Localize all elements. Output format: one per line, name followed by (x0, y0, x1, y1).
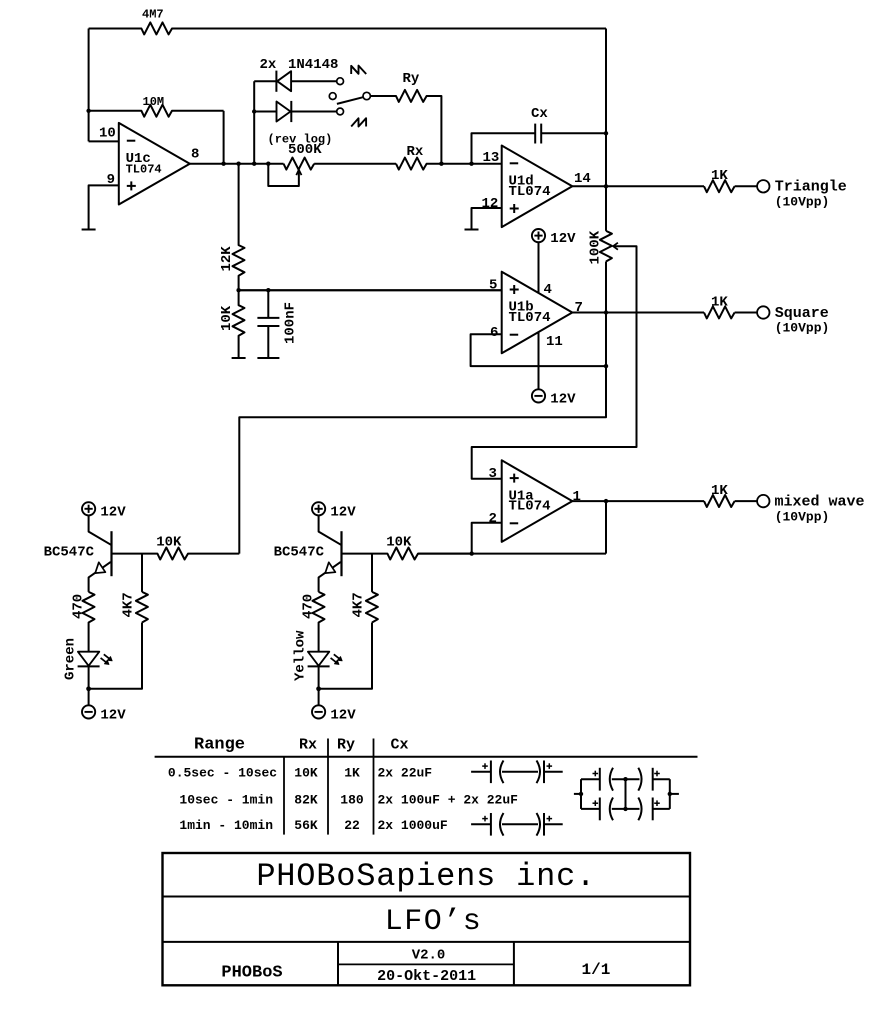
svg-text:1K: 1K (344, 765, 360, 780)
svg-text:470: 470 (301, 594, 317, 619)
svg-text:10K: 10K (156, 535, 182, 551)
svg-text:2: 2 (489, 511, 497, 527)
svg-text:2x 100uF + 2x 22uF: 2x 100uF + 2x 22uF (378, 792, 519, 807)
svg-text:(10Vpp): (10Vpp) (775, 195, 830, 210)
svg-text:V2.0: V2.0 (412, 948, 446, 964)
svg-text:8: 8 (191, 147, 199, 163)
svg-text:180: 180 (340, 792, 364, 807)
svg-text:TL074: TL074 (509, 310, 551, 326)
svg-text:2x: 2x (260, 57, 277, 73)
svg-text:12K: 12K (219, 246, 235, 272)
svg-text:4K7: 4K7 (121, 592, 137, 617)
svg-text:9: 9 (107, 172, 115, 188)
svg-text:1min - 10min: 1min - 10min (179, 818, 273, 833)
svg-text:10K: 10K (386, 535, 412, 551)
svg-text:3: 3 (489, 466, 497, 482)
svg-text:Triangle: Triangle (775, 179, 847, 196)
svg-text:7: 7 (575, 300, 583, 316)
svg-text:PHOBoSapiens inc.: PHOBoSapiens inc. (256, 858, 596, 895)
svg-text:4K7: 4K7 (351, 592, 367, 617)
svg-text:1K: 1K (711, 294, 728, 310)
svg-text:6: 6 (490, 325, 498, 341)
svg-text:Ry: Ry (403, 71, 420, 87)
svg-text:TL074: TL074 (509, 184, 551, 200)
svg-text:12V: 12V (550, 392, 576, 408)
svg-text:Ry: Ry (337, 737, 355, 754)
svg-text:10: 10 (99, 126, 116, 142)
svg-text:10K: 10K (219, 305, 235, 331)
svg-text:12V: 12V (100, 708, 126, 724)
svg-text:1: 1 (573, 489, 581, 505)
svg-text:14: 14 (574, 171, 591, 187)
svg-text:Green: Green (63, 638, 79, 680)
svg-text:10K: 10K (294, 765, 318, 780)
svg-text:TL074: TL074 (509, 499, 551, 515)
svg-text:22: 22 (344, 818, 360, 833)
svg-text:100K: 100K (588, 230, 604, 264)
svg-text:2x 1000uF: 2x 1000uF (378, 818, 448, 833)
svg-text:(10Vpp): (10Vpp) (775, 321, 830, 336)
svg-text:(10Vpp): (10Vpp) (775, 509, 830, 524)
svg-text:20-Okt-2011: 20-Okt-2011 (377, 968, 476, 985)
svg-text:Rx: Rx (299, 737, 317, 754)
svg-text:500K: 500K (288, 142, 322, 158)
svg-text:82K: 82K (294, 792, 318, 807)
svg-text:PHOBoS: PHOBoS (221, 964, 282, 983)
svg-text:Cx: Cx (531, 106, 548, 122)
svg-text:Rx: Rx (407, 144, 424, 160)
svg-text:4: 4 (544, 282, 552, 298)
svg-text:2x 22uF: 2x 22uF (378, 765, 433, 780)
svg-text:BC547C: BC547C (44, 545, 95, 561)
svg-text:0.5sec - 10sec: 0.5sec - 10sec (168, 765, 277, 780)
svg-text:1K: 1K (711, 483, 728, 499)
svg-text:12V: 12V (550, 231, 576, 247)
svg-text:Square: Square (775, 305, 829, 322)
svg-text:1N4148: 1N4148 (288, 57, 338, 73)
svg-text:12V: 12V (330, 504, 356, 520)
svg-text:10sec - 1min: 10sec - 1min (179, 792, 273, 807)
svg-text:5: 5 (489, 278, 497, 294)
svg-text:mixed wave: mixed wave (775, 494, 865, 511)
svg-text:56K: 56K (294, 818, 318, 833)
svg-text:10M: 10M (143, 95, 165, 109)
svg-text:12: 12 (482, 196, 499, 212)
svg-text:12V: 12V (100, 504, 126, 520)
svg-text:Yellow: Yellow (293, 630, 309, 681)
svg-text:1/1: 1/1 (581, 961, 610, 979)
svg-text:1K: 1K (711, 168, 728, 184)
svg-text:Cx: Cx (391, 737, 409, 754)
svg-text:470: 470 (71, 594, 87, 619)
svg-text:100nF: 100nF (283, 302, 299, 344)
svg-text:4M7: 4M7 (142, 8, 164, 22)
svg-text:13: 13 (483, 150, 500, 166)
svg-text:Range: Range (194, 736, 245, 755)
svg-text:11: 11 (546, 334, 563, 350)
svg-text:LFO’s: LFO’s (385, 905, 483, 939)
svg-text:12V: 12V (330, 708, 356, 724)
svg-text:BC547C: BC547C (274, 545, 325, 561)
svg-text:TL074: TL074 (126, 162, 162, 176)
